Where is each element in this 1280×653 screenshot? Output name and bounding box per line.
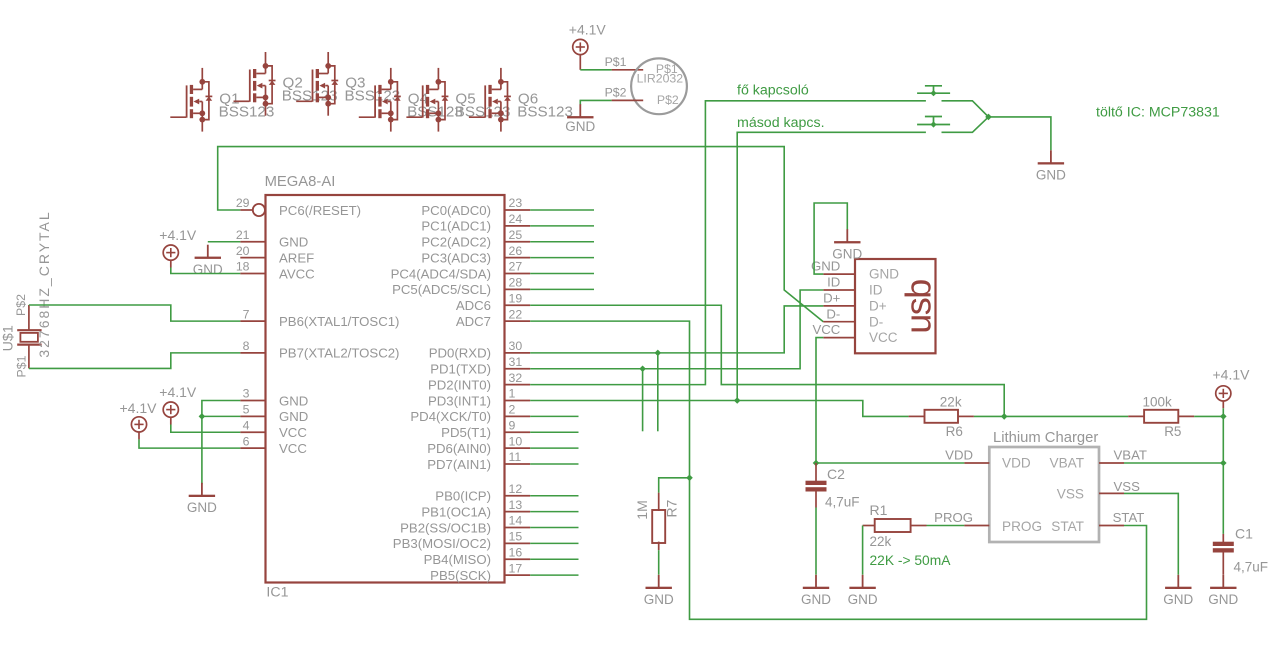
wire stub PC4	[530, 273, 594, 275]
wire stub	[530, 574, 578, 576]
svg-text:töltő IC: MCP73831: töltő IC: MCP73831	[1096, 105, 1220, 121]
wire stub	[530, 415, 578, 417]
wire R1 to ground	[862, 526, 864, 575]
crystal U$1 32768HZ_CRYTAL	[0, 210, 52, 377]
svg-text:GND: GND	[193, 262, 223, 277]
svg-text:MEGA8-AI: MEGA8-AI	[265, 174, 336, 190]
svg-text:VCC: VCC	[869, 330, 898, 345]
svg-text:GND: GND	[1036, 168, 1066, 183]
svg-text:GND: GND	[1163, 592, 1193, 607]
wire pin21 to ground	[208, 241, 241, 243]
svg-text:VSS: VSS	[1057, 486, 1084, 501]
svg-text:3: 3	[243, 387, 250, 401]
wire VBAT net	[1124, 462, 1223, 464]
pin 11 PD7(AIN1) (right)	[427, 450, 530, 472]
ground switches	[1036, 150, 1066, 182]
svg-text:PD0(RXD): PD0(RXD)	[429, 346, 491, 361]
svg-text:12: 12	[509, 482, 523, 496]
charger pin STAT	[1099, 510, 1144, 526]
svg-text:+4.1V: +4.1V	[1213, 367, 1251, 383]
pin 23 PC0(ADC0) (right)	[421, 196, 530, 218]
svg-text:4,7uF: 4,7uF	[1234, 560, 1269, 575]
svg-text:STAT: STAT	[1051, 519, 1084, 534]
ic U1 MEGA8-AI body	[265, 174, 505, 601]
svg-text:AREF: AREF	[279, 250, 314, 265]
pin 30 PD0(RXD) (right)	[429, 339, 530, 361]
pin 10 PD6(AIN0) (right)	[427, 434, 530, 456]
transistor Q5 BSS123	[406, 68, 510, 132]
svg-text:19: 19	[509, 291, 523, 305]
wire usb VCC to VDD net	[816, 338, 823, 463]
transistor Q6 BSS123	[469, 68, 573, 132]
ground battery	[565, 104, 595, 134]
wire ADC7 net	[530, 321, 1146, 619]
wire XTAL1 net	[29, 305, 240, 321]
svg-text:C1: C1	[1235, 526, 1253, 542]
svg-text:100k: 100k	[1143, 395, 1173, 410]
ground pins 3/5	[187, 483, 217, 515]
svg-text:PB4(MISO): PB4(MISO)	[424, 552, 491, 567]
svg-text:PB5(SCK): PB5(SCK)	[430, 568, 491, 583]
svg-text:PD5(T1): PD5(T1)	[441, 425, 491, 440]
wire R6 to junction	[974, 415, 1004, 417]
ground near pin 21	[193, 245, 223, 277]
node junction TXD stub	[639, 365, 646, 372]
pin 25 PC2(ADC2) (right)	[421, 228, 530, 250]
svg-text:5: 5	[243, 403, 250, 417]
svg-text:ADC7: ADC7	[456, 314, 491, 329]
usb pin VCC	[812, 322, 897, 345]
svg-text:PD4(XCK/T0): PD4(XCK/T0)	[410, 409, 491, 424]
resistor R7 1M	[634, 493, 679, 551]
svg-text:2: 2	[509, 403, 516, 417]
resistor R6 22k	[909, 395, 974, 440]
svg-text:+4.1V: +4.1V	[159, 227, 197, 243]
supply +4.1V (battery)	[569, 22, 607, 70]
svg-text:1: 1	[509, 387, 516, 401]
svg-text:VDD: VDD	[945, 448, 973, 463]
pin 13 PB1(OC1A) (right)	[421, 498, 530, 520]
svg-text:VBAT: VBAT	[1050, 456, 1085, 471]
svg-text:PC1(ADC1): PC1(ADC1)	[421, 219, 491, 234]
svg-text:PD3(INT1): PD3(INT1)	[428, 393, 491, 408]
pin 21 GND (left)	[236, 228, 309, 250]
node junction ADC7 R7	[686, 475, 693, 482]
wire stub PC3	[530, 257, 594, 259]
battery G1 LIR2032 body	[631, 58, 687, 114]
svg-text:PB1(OC1A): PB1(OC1A)	[421, 504, 491, 519]
wire PD2 to switch 1	[530, 101, 926, 385]
svg-text:GND: GND	[644, 592, 674, 607]
wire +4.1V rail down	[1222, 408, 1224, 534]
wire stub	[530, 447, 578, 449]
wire VCC pin4 net	[171, 425, 241, 433]
svg-text:PC5(ADC5/SCL): PC5(ADC5/SCL)	[392, 282, 491, 297]
svg-text:D-: D-	[826, 306, 840, 321]
svg-text:32768HZ_CRYTAL: 32768HZ_CRYTAL	[36, 210, 52, 357]
svg-text:PC0(ADC0): PC0(ADC0)	[421, 203, 491, 218]
battery G1 LIR2032 pin P$1	[605, 55, 644, 70]
ground C1	[1208, 575, 1238, 607]
svg-text:PC3(ADC3): PC3(ADC3)	[421, 250, 491, 265]
battery G1 pin P$2	[605, 86, 644, 101]
pin 1 PD3(INT1) (right)	[428, 387, 530, 409]
svg-text:ADC6: ADC6	[456, 298, 491, 313]
svg-text:22K -> 50mA: 22K -> 50mA	[870, 553, 952, 568]
svg-text:C2: C2	[827, 466, 845, 482]
wire PD3/R6 net	[530, 401, 908, 417]
svg-text:VDD: VDD	[1002, 456, 1031, 471]
wire R7 branch	[659, 478, 690, 493]
svg-text:D+: D+	[869, 299, 887, 314]
svg-text:30: 30	[509, 339, 523, 353]
wire RXD stub	[657, 353, 659, 431]
pin 3 GND (left)	[240, 387, 308, 409]
wire stub	[530, 542, 578, 544]
resistor R5 100k	[1128, 395, 1194, 440]
wire stub PC5	[530, 288, 594, 290]
switch S2 masod kapcs	[917, 117, 950, 128]
svg-text:GND: GND	[565, 119, 595, 134]
wire battery plus	[580, 69, 611, 71]
svg-text:25: 25	[509, 228, 523, 242]
svg-text:22k: 22k	[870, 534, 892, 549]
svg-text:20: 20	[236, 244, 250, 258]
svg-text:ID: ID	[827, 275, 840, 290]
pin 24 PC1(ADC1) (right)	[421, 212, 530, 234]
pin 29 PC6(/RESET) (left)	[236, 196, 361, 218]
svg-text:GND: GND	[869, 267, 899, 282]
svg-text:PB6(XTAL1/TOSC1): PB6(XTAL1/TOSC1)	[279, 314, 399, 329]
ground R1	[848, 575, 878, 607]
wire TXD stub	[642, 369, 644, 432]
pin 27 PC4(ADC4/SDA) (right)	[391, 260, 531, 282]
pin 22 ADC7 (right)	[456, 307, 530, 329]
node switches junction	[985, 114, 992, 121]
wire VCC pin6 net	[139, 439, 240, 448]
svg-text:VCC: VCC	[279, 441, 307, 456]
wire switches to ground	[989, 117, 1051, 150]
wire usb ID to PD1 TXD	[530, 290, 823, 369]
svg-text:R1: R1	[870, 502, 888, 518]
svg-text:22k: 22k	[940, 395, 962, 410]
svg-text:PD1(TXD): PD1(TXD)	[430, 362, 491, 377]
svg-text:17: 17	[509, 561, 523, 575]
pin 28 PC5(ADC5/SCL) (right)	[392, 276, 530, 298]
ground R7	[644, 575, 674, 607]
ground VSS	[1163, 575, 1193, 607]
wire VSS to ground	[1124, 493, 1178, 574]
pin 4 VCC (left)	[240, 418, 307, 440]
pin 12 PB0(ICP) (right)	[435, 482, 530, 504]
svg-text:23: 23	[509, 196, 523, 210]
svg-text:+4.1V: +4.1V	[159, 384, 197, 400]
wire switch2 riser	[737, 132, 926, 400]
svg-text:26: 26	[509, 244, 523, 258]
pin 31 PD1(TXD) (right)	[430, 355, 530, 377]
svg-text:P$2: P$2	[657, 93, 679, 107]
capacitor C2 4,7uF	[806, 463, 860, 510]
wire AVCC net	[171, 268, 241, 274]
svg-text:16: 16	[509, 545, 523, 559]
wire stub	[530, 495, 578, 497]
supply +4.1V (VBAT)	[1213, 367, 1251, 409]
pin 9 PD5(T1) (right)	[441, 418, 530, 440]
pin 14 PB2(SS/OC1B) (right)	[400, 514, 530, 536]
svg-text:PB0(ICP): PB0(ICP)	[435, 489, 491, 504]
wire XTAL2 net	[29, 353, 240, 369]
charger pin PROG	[934, 510, 989, 525]
svg-text:VCC: VCC	[279, 425, 307, 440]
svg-text:PD2(INT0): PD2(INT0)	[428, 377, 491, 392]
charger pin VBAT	[1099, 448, 1147, 463]
wire stub PC1	[530, 225, 594, 227]
svg-text:BSS123: BSS123	[517, 103, 573, 120]
wire switch1 to node	[942, 101, 989, 117]
svg-text:P$1: P$1	[605, 55, 627, 69]
svg-text:PB7(XTAL2/TOSC2): PB7(XTAL2/TOSC2)	[279, 346, 399, 361]
svg-text:PC2(ADC2): PC2(ADC2)	[421, 235, 491, 250]
usb pin ID	[823, 275, 882, 298]
svg-text:29: 29	[236, 196, 250, 210]
connector J1 usb body	[855, 259, 939, 353]
ic U2 Lithium Charger body	[989, 430, 1099, 542]
usb pin GND	[811, 259, 899, 282]
svg-text:18: 18	[236, 260, 250, 274]
svg-text:AVCC: AVCC	[279, 266, 315, 281]
pin 5 GND (left)	[240, 403, 308, 425]
svg-text:14: 14	[509, 514, 523, 528]
wire RESET net	[218, 147, 824, 322]
usb pin D+	[823, 291, 887, 314]
pin 16 PB4(MISO) (right)	[424, 545, 531, 567]
svg-text:GND: GND	[279, 235, 308, 250]
svg-text:R5: R5	[1164, 424, 1181, 439]
svg-text:P$2: P$2	[605, 86, 627, 100]
pin 18 AVCC (left)	[236, 260, 315, 282]
svg-text:U$1: U$1	[0, 325, 16, 351]
wire VDD net	[816, 462, 964, 464]
svg-text:22: 22	[509, 307, 523, 321]
charger pin VSS	[1099, 479, 1140, 494]
wire R7 to ground	[658, 550, 660, 575]
svg-text:R7: R7	[663, 499, 679, 517]
supply +4.1V (VCC pin6)	[120, 400, 158, 440]
svg-text:BSS123: BSS123	[345, 88, 401, 105]
pin 17 PB5(SCK) (right)	[430, 561, 530, 583]
svg-text:1M: 1M	[634, 500, 650, 519]
wire stub	[530, 431, 578, 433]
svg-text:P$2: P$2	[14, 294, 28, 316]
svg-text:21: 21	[236, 228, 250, 242]
pin 7 PB6(XTAL1/TOSC1) (left)	[240, 307, 399, 329]
wire usb GND to ground	[814, 203, 847, 274]
svg-text:PROG: PROG	[1002, 519, 1042, 534]
ground usb	[832, 229, 862, 261]
node junction rail R5	[1220, 413, 1227, 420]
svg-text:VCC: VCC	[812, 322, 840, 337]
svg-text:13: 13	[509, 498, 523, 512]
svg-text:6: 6	[243, 434, 250, 448]
node junction PD3 switch	[734, 397, 741, 404]
pin 26 PC3(ADC3) (right)	[421, 244, 530, 266]
wire pin3 GND down	[202, 401, 240, 485]
svg-text:PC6(/RESET): PC6(/RESET)	[279, 203, 361, 218]
svg-text:GND: GND	[279, 393, 308, 408]
node junction RXD stub	[655, 350, 662, 357]
svg-text:7: 7	[243, 307, 250, 321]
wire stub	[530, 463, 578, 465]
pin 20 AREF (left)	[236, 244, 314, 266]
transistor Q2 BSS123	[234, 52, 338, 116]
svg-text:GND: GND	[187, 500, 217, 515]
svg-text:GND: GND	[832, 246, 862, 261]
svg-text:PB3(MOSI/OC2): PB3(MOSI/OC2)	[393, 536, 491, 551]
svg-text:LIR2032: LIR2032	[637, 72, 684, 86]
svg-text:GND: GND	[279, 409, 308, 424]
ground C2	[801, 575, 831, 607]
wire stub	[530, 511, 578, 513]
svg-text:PD7(AIN1): PD7(AIN1)	[427, 457, 491, 472]
svg-text:P$1: P$1	[15, 355, 29, 377]
node junction pins 3/5	[199, 413, 206, 420]
svg-text:9: 9	[509, 418, 516, 432]
pin 8 PB7(XTAL2/TOSC2) (left)	[240, 339, 399, 361]
wire C2 to ground	[815, 508, 817, 575]
wire stub	[530, 527, 578, 529]
pin 19 ADC6 (right)	[456, 291, 530, 313]
svg-text:31: 31	[509, 355, 523, 369]
svg-text:28: 28	[509, 276, 523, 290]
resistor R1 22k	[863, 502, 927, 549]
svg-text:24: 24	[509, 212, 523, 226]
svg-text:4: 4	[243, 418, 250, 432]
svg-text:15: 15	[509, 530, 523, 544]
svg-text:IC1: IC1	[266, 585, 288, 601]
svg-text:+4.1V: +4.1V	[569, 22, 607, 38]
transistor Q1 BSS123	[170, 68, 274, 132]
wire pin5 GND	[202, 415, 240, 417]
svg-text:Lithium Charger: Lithium Charger	[993, 430, 1098, 446]
wire battery minus	[580, 100, 611, 105]
svg-text:27: 27	[509, 260, 523, 274]
node junction VDD C2	[813, 460, 820, 467]
svg-text:PB2(SS/OC1B): PB2(SS/OC1B)	[400, 520, 491, 535]
wire stub PC0	[530, 209, 594, 211]
transistor Q4 BSS123	[359, 68, 463, 132]
svg-text:STAT: STAT	[1113, 510, 1145, 525]
charger pin VDD	[945, 448, 989, 463]
svg-text:R6: R6	[946, 424, 963, 439]
svg-text:8: 8	[243, 339, 250, 353]
svg-text:+4.1V: +4.1V	[120, 400, 158, 416]
wire stub	[530, 558, 578, 560]
svg-text:11: 11	[509, 450, 522, 464]
svg-text:usb: usb	[898, 280, 939, 334]
capacitor C1 4,7uF	[1213, 526, 1268, 575]
svg-text:GND: GND	[1208, 592, 1238, 607]
wire stub PC2	[530, 241, 594, 243]
node junction rail VBAT	[1220, 460, 1227, 467]
svg-text:másod kapcs.: másod kapcs.	[737, 115, 825, 131]
usb pin D-	[823, 306, 883, 329]
svg-text:PD6(AIN0): PD6(AIN0)	[427, 441, 491, 456]
pin 15 PB3(MOSI/OC2) (right)	[393, 530, 530, 552]
svg-text:PROG: PROG	[934, 510, 973, 525]
pin 6 VCC (left)	[240, 434, 307, 456]
svg-text:10: 10	[509, 434, 523, 448]
wire R1 to PROG	[927, 525, 965, 527]
wire usb D+ to PD0 RXD	[530, 306, 823, 353]
transistor Q3 BSS123	[296, 52, 400, 116]
svg-text:fő kapcsoló: fő kapcsoló	[737, 83, 809, 99]
svg-text:GND: GND	[801, 592, 831, 607]
wire ADC6 net	[530, 305, 1004, 416]
svg-text:D-: D-	[869, 314, 883, 329]
pin 2 PD4(XCK/T0) (right)	[410, 403, 530, 425]
svg-text:PC4(ADC4/SDA): PC4(ADC4/SDA)	[391, 266, 491, 281]
wire R5 to +4.1V rail	[1194, 415, 1223, 417]
svg-text:4,7uF: 4,7uF	[825, 495, 860, 510]
svg-text:32: 32	[509, 371, 523, 385]
wire junction to R5	[1004, 415, 1128, 417]
pin 32 PD2(INT0) (right)	[428, 371, 530, 393]
switch S1 fo kapcsolo	[917, 86, 950, 97]
svg-text:D+: D+	[823, 291, 841, 306]
node junction ADC6/R6/R5	[1001, 413, 1008, 420]
svg-text:VBAT: VBAT	[1114, 448, 1147, 463]
svg-text:GND: GND	[848, 592, 878, 607]
svg-text:VSS: VSS	[1114, 479, 1141, 494]
svg-text:ID: ID	[869, 283, 883, 298]
supply +4.1V (AVCC)	[159, 227, 197, 267]
wire switch2 to node	[942, 117, 989, 132]
supply +4.1V (VCC pin4)	[159, 384, 197, 424]
